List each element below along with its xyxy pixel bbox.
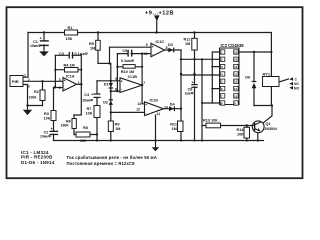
resistor R2	[40, 90, 45, 101]
op-amp IC1A	[63, 43, 165, 115]
resistor R6 leads	[73, 115, 75, 135]
resistor R13	[206, 123, 221, 128]
wire IC1A output stub	[77, 83, 82, 85]
transistor Q1	[252, 121, 264, 133]
wire C3 branch top	[55, 54, 81, 56]
svg-text:1М: 1М	[185, 42, 190, 46]
wire IC1C output / D3 row	[165, 49, 182, 51]
svg-text:R3: R3	[44, 112, 49, 116]
op-amp IC1C	[151, 43, 165, 56]
junction node (181,74)	[180, 73, 182, 75]
svg-text:2: 2	[59, 86, 61, 90]
svg-text:R9: R9	[115, 123, 120, 127]
wire timing row y74	[181, 74, 220, 76]
wire flyback row y105.5	[254, 105, 272, 107]
wire loop2 top with C5 gap	[117, 53, 142, 55]
svg-text:15: 15	[234, 58, 238, 62]
junction node (44,32.5)	[43, 31, 45, 33]
junction node (27.5,105.5)	[26, 104, 28, 106]
wire C2 to bottom rail	[53, 134, 55, 140]
junction node (246.8,125.5)	[246, 124, 248, 126]
svg-text:1М: 1М	[172, 127, 177, 131]
wire OR node x181	[180, 50, 182, 141]
wire relay coil bottom lead	[270, 87, 272, 106]
wire loop2 left x117.4	[116, 54, 118, 92]
wire rail drop to relay coil	[270, 33, 272, 77]
junction node (81.3,69.7)	[80, 69, 82, 71]
junction node (257.8,140.5)	[257, 139, 259, 141]
junction node (272,105.5)	[271, 104, 273, 106]
svg-text:Ток срабатывания реле - не бол: Ток срабатывания реле - не более 50 мА	[67, 155, 157, 160]
resistor R3	[51, 111, 56, 121]
svg-text:C3: C3	[59, 52, 64, 56]
wire R3 chain	[53, 88, 55, 131]
svg-text:6: 6	[115, 88, 117, 92]
svg-text:10мкФ: 10мкФ	[82, 99, 93, 103]
svg-text:D1: D1	[104, 83, 109, 87]
svg-text:2N3904: 2N3904	[265, 127, 277, 131]
svg-text:R14: R14	[237, 128, 245, 132]
svg-text:9: 9	[146, 43, 148, 47]
svg-text:1М: 1М	[115, 127, 120, 131]
svg-text:D6: D6	[245, 76, 250, 80]
border frame	[7, 7, 303, 178]
resistor R2 leads	[42, 81, 44, 105]
svg-text:RY1: RY1	[263, 71, 271, 76]
diode D3	[168, 48, 173, 53]
junction node (156.5,32.5)	[155, 31, 157, 33]
svg-text:13: 13	[137, 102, 141, 106]
wire IC1C pin 10 stub	[142, 53, 151, 55]
svg-text:10К: 10К	[86, 112, 93, 116]
svg-text:2: 2	[28, 78, 30, 82]
svg-text:+: +	[121, 80, 123, 84]
resistor R10	[123, 65, 135, 69]
svg-text:10К: 10К	[237, 132, 244, 136]
junction node (81.3,84.3)	[80, 83, 82, 85]
wire feedback loop left x55.4	[54, 55, 56, 87]
capacitor C3	[69, 52, 70, 59]
junction node (55.4,69.7)	[54, 69, 56, 71]
svg-text:15К: 15К	[66, 37, 73, 41]
junction node (202,140.5)	[201, 139, 203, 141]
diode D6	[252, 83, 257, 89]
svg-text:R12: R12	[184, 37, 191, 41]
svg-text:R1: R1	[68, 26, 73, 30]
IC2 pin numbers left	[221, 50, 238, 105]
svg-text:14: 14	[164, 105, 168, 109]
wire chip left bus x211.5 with stubs	[212, 52, 219, 103]
resistor R9	[108, 121, 113, 132]
svg-text:+: +	[152, 45, 154, 49]
wire R8 row and ground drop	[74, 135, 97, 141]
resistor R12	[192, 38, 197, 50]
svg-text:15К: 15К	[80, 139, 87, 143]
junction node (181,140.5)	[180, 139, 182, 141]
diode D6 leads	[253, 52, 255, 106]
junction node (54.5,87.5)	[53, 86, 55, 88]
svg-text:13: 13	[234, 72, 238, 76]
IC2 CD4538 body	[220, 48, 240, 105]
junction node (194.5,59.3)	[193, 58, 195, 60]
wire bias node y63.4	[98, 62, 110, 64]
wire R13 row to Q1 base	[202, 125, 253, 127]
svg-text:+9...+12В: +9...+12В	[145, 10, 174, 16]
wire chip left bus x205.5	[201, 59, 203, 140]
svg-text:PIR - RE200B: PIR - RE200B	[21, 155, 53, 160]
svg-text:1: 1	[24, 74, 26, 78]
svg-text:12: 12	[136, 107, 140, 111]
capacitor C1 leads	[43, 33, 45, 49]
wire to IC1C pin 9	[110, 46, 152, 48]
svg-text:Q1: Q1	[266, 122, 271, 126]
junction node (202,103)	[201, 102, 203, 104]
svg-text:16: 16	[234, 50, 238, 54]
wire R7 bottom	[96, 118, 98, 135]
junction node (142.1,66.8)	[141, 66, 143, 68]
junction node (110.8,80.8)	[110, 80, 112, 82]
wire comparator feed x142.1	[142, 54, 144, 104]
wire relay contact arm	[279, 79, 289, 82]
junction node (246.8,140.5)	[246, 139, 248, 141]
junction node (155.5,140.5)	[154, 139, 156, 141]
capacitor C5	[127, 50, 128, 57]
svg-text:3: 3	[28, 85, 30, 89]
svg-text:Постоянная времени = R12хС8: Постоянная времени = R12хС8	[67, 161, 136, 166]
capacitor C4	[94, 93, 101, 94]
capacitor C1	[40, 40, 49, 41]
junction node (110.8,91.2)	[110, 90, 112, 92]
svg-text:10: 10	[234, 94, 238, 98]
capacitor C8	[191, 84, 197, 85]
wire chip pin 8 ground	[202, 102, 220, 104]
junction node (212.3,75)	[211, 74, 213, 76]
resistor R4	[65, 68, 79, 73]
junction node (202,59.3)	[201, 58, 203, 60]
capacitor C4 leads	[96, 81, 98, 106]
svg-text:10мкФ: 10мкФ	[40, 135, 51, 139]
junction node (117.4,91.2)	[116, 90, 118, 92]
resistor R7	[94, 106, 100, 118]
svg-text:12: 12	[234, 80, 238, 84]
svg-text:R8: R8	[83, 126, 88, 130]
svg-text:0.1мкФ: 0.1мкФ	[75, 52, 89, 56]
wire to IC1D pin 12	[111, 111, 145, 113]
resistor R12 leads	[194, 33, 196, 60]
svg-text:10К: 10К	[44, 117, 51, 121]
capacitor C2	[50, 131, 59, 132]
wire +12V entry stem	[156, 21, 158, 33]
wire C4 top to IC1B pin 5	[97, 80, 120, 82]
wire IC1D pin 11 to ground	[155, 115, 157, 141]
svg-text:1: 1	[78, 81, 80, 85]
svg-text:1мкФ: 1мкФ	[185, 92, 194, 96]
ground arrow at PIR/R2	[23, 110, 32, 115]
svg-text:11: 11	[234, 87, 238, 91]
resistor R8	[76, 132, 90, 137]
Q1 emitter arrow	[257, 128, 260, 131]
wire IC1B pin 6 row	[111, 90, 120, 92]
junction node (212.3,59.3)	[211, 58, 213, 60]
svg-text:NO: NO	[294, 86, 299, 90]
wire trigger row y59.3	[181, 58, 220, 60]
relay contact terminals	[289, 77, 293, 89]
junction node (194.5,74)	[193, 73, 195, 75]
IC2 pin boxes left	[220, 50, 238, 105]
wire PIR pin 2 to IC1A pin 3	[23, 80, 63, 82]
relay RY1 box	[263, 77, 280, 87]
wire feedback loop right / output drop	[74, 55, 81, 115]
junction node (194.5,32.5)	[193, 31, 195, 33]
junction node (117.4,66.8)	[116, 66, 118, 68]
junction node (97,134.5)	[96, 133, 98, 135]
op-amp IC1B	[120, 78, 142, 93]
wire R4 branch	[55, 69, 81, 71]
diode D2	[109, 99, 113, 100]
svg-text:R2: R2	[34, 90, 39, 94]
resistor R5	[96, 40, 101, 50]
diode D4	[169, 106, 174, 111]
junction node (212.3,66.6)	[211, 66, 213, 68]
junction node (98,32.5)	[97, 31, 99, 33]
wire Q1 collector	[263, 106, 272, 124]
svg-text:IC2 CD4538: IC2 CD4538	[221, 43, 245, 48]
IC2 pin boxes right	[234, 50, 239, 54]
wire PIR pin 3 to ground	[23, 85, 43, 106]
svg-text:R10 1М: R10 1М	[121, 70, 134, 74]
wire IC1A pin 2 node	[54, 87, 64, 89]
svg-text:R4 1М: R4 1М	[64, 63, 75, 67]
junction node (271.4,52)	[270, 51, 272, 53]
svg-text:0.1мкФ: 0.1мкФ	[121, 59, 135, 63]
wire IC1D output / D4 row	[164, 108, 182, 110]
junction node (181,108.7)	[180, 108, 182, 110]
node dots	[26, 31, 273, 141]
wire Q1 emitter	[258, 131, 260, 141]
junction node (142.1,85.1)	[141, 84, 143, 86]
svg-text:IC1A: IC1A	[66, 74, 75, 78]
svg-text:+: +	[145, 103, 147, 107]
junction node (181,59.3)	[180, 58, 182, 60]
capacitor C8 leads	[194, 59, 196, 140]
junction node (142.1,53.6)	[141, 52, 143, 54]
junction node (97,140.5)	[96, 139, 98, 141]
svg-text:11: 11	[157, 112, 161, 116]
junction node (110.8,112.4)	[110, 111, 112, 113]
svg-text:100К: 100К	[29, 95, 38, 99]
resistor R11	[178, 121, 184, 132]
resistor R5 leads	[97, 33, 99, 64]
svg-text:10: 10	[144, 52, 148, 56]
wire bottom ground rail	[54, 140, 264, 142]
svg-text:R7: R7	[87, 107, 92, 111]
wire R10 row	[117, 66, 142, 68]
junction node (109.5,63.4)	[108, 62, 110, 64]
svg-text:5: 5	[115, 77, 117, 81]
svg-text:14: 14	[234, 65, 238, 69]
svg-text:IC1B: IC1B	[128, 75, 137, 79]
resistor R14 leads	[246, 126, 248, 141]
svg-text:IC1C: IC1C	[156, 40, 165, 44]
svg-text:D3: D3	[168, 43, 173, 47]
svg-text:D1-D6 - 1N914: D1-D6 - 1N914	[21, 160, 55, 165]
svg-text:R11: R11	[170, 123, 177, 127]
svg-text:10мкФ: 10мкФ	[30, 44, 41, 48]
PIR sensor box	[10, 76, 23, 87]
junction node (110.8,140.5)	[110, 139, 112, 141]
wire chip pin 16 to relay rail	[239, 51, 271, 53]
ground arrow main	[152, 147, 160, 151]
supply arrow	[154, 15, 160, 21]
resistor R1	[65, 30, 78, 35]
resistor R14	[244, 127, 250, 138]
svg-text:160К: 160К	[61, 124, 70, 128]
svg-text:R13 10К: R13 10К	[203, 119, 218, 123]
svg-text:D2: D2	[103, 100, 108, 104]
junction node (212.3,88.6)	[211, 88, 213, 90]
svg-text:C5: C5	[122, 49, 127, 53]
wire diode ladder x110.8	[110, 63, 112, 140]
svg-text:PIR: PIR	[12, 79, 19, 84]
op-amp IC1D	[145, 102, 164, 116]
svg-text:IC1D: IC1D	[150, 98, 159, 102]
svg-text:3: 3	[59, 78, 61, 82]
svg-text:+: +	[64, 79, 66, 83]
junction node (194.5,140.5)	[193, 139, 195, 141]
wire rail left drop to PIR pin 1	[23, 33, 28, 78]
ground arrow at C1	[39, 51, 49, 56]
diode D1	[109, 83, 113, 87]
svg-text:7: 7	[143, 81, 145, 85]
svg-text:1М: 1М	[90, 46, 95, 50]
wire top supply rail	[28, 32, 272, 34]
svg-text:R5: R5	[89, 42, 94, 46]
resistor R6	[72, 119, 76, 129]
junction node (254,52)	[253, 51, 255, 53]
wire bias riser	[109, 47, 111, 63]
junction node (42.5,81.3)	[41, 80, 43, 82]
